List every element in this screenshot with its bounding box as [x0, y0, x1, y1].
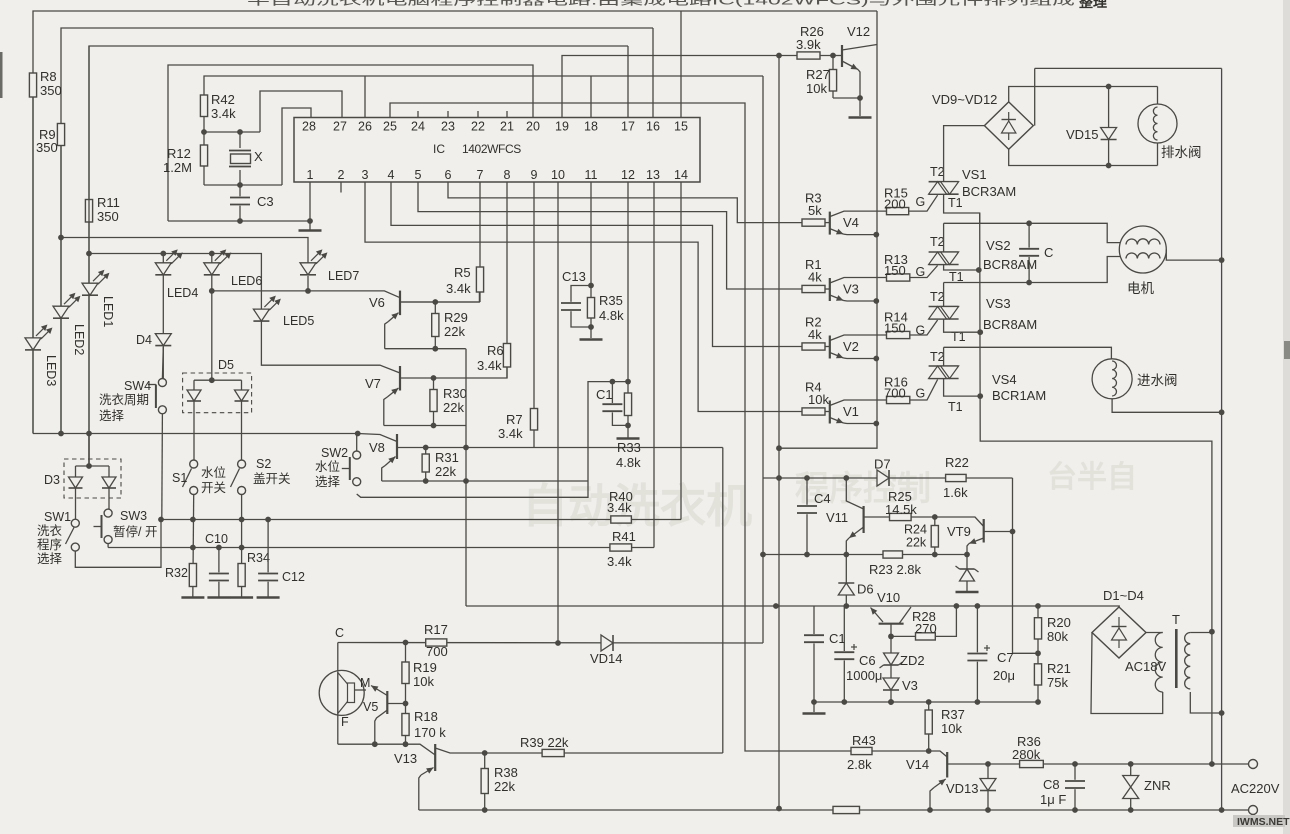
resistor R41 3.4k	[610, 544, 632, 551]
transistor V3	[825, 288, 830, 290]
wire bridge bottom to valve bottom row	[1009, 149, 1158, 165]
transistor V8	[396, 434, 398, 459]
svg-text:V14: V14	[906, 757, 929, 772]
svg-text:2.8k: 2.8k	[847, 757, 872, 772]
node capacitor C top	[1026, 220, 1032, 226]
svg-text:T1: T1	[948, 196, 963, 210]
svg-text:22k: 22k	[494, 779, 515, 794]
resistor R5 3.4k	[476, 267, 483, 292]
resistor R13 150	[887, 274, 910, 281]
svg-text:7: 7	[477, 168, 484, 182]
wire R38 column	[484, 753, 486, 810]
svg-text:SW2: SW2	[321, 446, 348, 460]
svg-text:R33: R33	[617, 440, 641, 455]
svg-text:270: 270	[915, 621, 937, 636]
node C13/R35 top	[588, 283, 594, 289]
transistor V1	[825, 411, 830, 413]
svg-text:R32: R32	[165, 566, 188, 580]
node S1 on row 519	[190, 517, 196, 523]
wire long row y=433.5 to V8 base	[33, 434, 397, 442]
ground R33	[617, 437, 640, 440]
node R31 bottom	[423, 478, 429, 484]
wire IC pin 14 column	[680, 182, 682, 520]
svg-text:BCR1AM: BCR1AM	[992, 388, 1046, 403]
node C7 bottom	[975, 699, 981, 705]
wire LED row y=253.5 and LED5 branch to V7 base	[89, 254, 400, 374]
svg-text:24: 24	[411, 120, 425, 134]
node S2 on row 547	[239, 545, 245, 551]
svg-text:150: 150	[884, 263, 906, 278]
node R30 bottom	[431, 423, 437, 429]
node VD13 top	[985, 761, 991, 767]
wire IC pin 12 column to R33	[627, 182, 629, 439]
node C6 bottom	[841, 699, 847, 705]
ground power block	[803, 712, 826, 715]
wire SW2 top contact riser	[356, 434, 358, 452]
svg-text:R24: R24	[904, 523, 927, 537]
svg-text:10k: 10k	[808, 392, 829, 407]
ground R35	[580, 338, 603, 341]
wire crystal bottom row y=185	[204, 184, 282, 186]
svg-text:G: G	[916, 324, 926, 338]
svg-text:R38: R38	[494, 765, 518, 780]
svg-text:23: 23	[441, 120, 455, 134]
node R35 bottom	[588, 324, 594, 330]
node C4 top	[804, 475, 810, 481]
svg-text:350: 350	[97, 209, 119, 224]
svg-text:3.4k: 3.4k	[446, 281, 471, 296]
node SW4/SW1 junction on row	[158, 517, 164, 523]
svg-text:T1: T1	[948, 400, 963, 414]
node C8 top	[1072, 761, 1078, 767]
svg-text:V8: V8	[369, 440, 385, 455]
svg-text:VD13: VD13	[946, 781, 979, 796]
inlet valve solenoid	[1092, 359, 1132, 399]
capacitor C8	[1064, 780, 1086, 789]
svg-text:台半自: 台半自	[1047, 460, 1137, 494]
node R30 top	[431, 375, 437, 381]
resistor R23 2.8k	[883, 551, 903, 558]
svg-text:D1~D4: D1~D4	[1103, 588, 1144, 603]
svg-text:1402WFCS: 1402WFCS	[462, 142, 521, 156]
svg-text:T2: T2	[930, 290, 945, 304]
svg-text:选择: 选择	[315, 475, 341, 489]
resistor R15 200	[887, 208, 909, 215]
resistor R29 22k	[432, 314, 439, 337]
node right bus on bottom row	[1219, 807, 1225, 813]
wire base wire to VT9	[935, 517, 984, 527]
svg-text:LED2: LED2	[72, 324, 86, 355]
wire C3 column	[239, 185, 241, 221]
wire C7 column	[976, 606, 978, 702]
wire IC pin feed to R1 row	[418, 182, 802, 289]
svg-text:25: 25	[383, 120, 397, 134]
svg-text:R30: R30	[443, 386, 467, 401]
svg-text:V2: V2	[843, 339, 859, 354]
node capacitor C bottom	[1026, 280, 1032, 286]
svg-text:V3: V3	[902, 678, 918, 693]
node C4 bottom on R23 row	[804, 552, 810, 558]
ground R34	[230, 596, 253, 599]
motor	[1119, 226, 1166, 273]
wire R31 column	[425, 448, 427, 482]
svg-text:LED3: LED3	[44, 355, 58, 386]
wire LED1 column x=89	[88, 254, 90, 467]
svg-text:S1: S1	[172, 471, 187, 485]
svg-text:T2: T2	[930, 350, 945, 364]
node motor output on right bus	[1219, 257, 1225, 263]
node bus x=779 on V10 row	[773, 603, 779, 609]
resistor R11 350	[85, 200, 92, 223]
ground V12	[849, 116, 872, 119]
svg-text:18: 18	[584, 120, 598, 134]
wire C6 column	[843, 606, 845, 702]
svg-text:R35: R35	[599, 293, 623, 308]
node R37 top	[926, 699, 932, 705]
wire VS3 T1 hook	[944, 319, 981, 332]
node VS2 T1 on bus	[976, 267, 982, 273]
node VS3 T1 on bus	[977, 329, 983, 335]
svg-text:R43: R43	[852, 733, 876, 748]
wire SW1 bottom loop to row y=519.5	[75, 520, 161, 568]
pin stub 2	[340, 182, 342, 193]
wire R40 right to pin 14 riser	[631, 519, 681, 521]
svg-text:22k: 22k	[906, 536, 927, 550]
node pin1 ground junction	[307, 218, 313, 224]
wire bus x=763 pin18 line down to VD14 row	[762, 76, 764, 643]
node ZNR top	[1128, 761, 1134, 767]
resistor R37 10k	[925, 710, 932, 734]
svg-text:4k: 4k	[808, 327, 822, 342]
speaker / buzzer	[319, 670, 364, 715]
svg-text:350: 350	[40, 83, 62, 98]
wire V7 emitter row y=425.5	[384, 425, 466, 427]
wire drain valve top riser	[1157, 87, 1159, 105]
wire D5 left diode column to S1	[193, 380, 195, 460]
svg-text:170 k: 170 k	[414, 725, 446, 740]
wire R22 corner down to R20/R21 junction	[1013, 478, 1039, 653]
transistor V5	[386, 691, 388, 714]
node V12 emitter junction	[857, 95, 863, 101]
svg-text:C6: C6	[859, 653, 876, 668]
switch S2	[238, 460, 246, 468]
diode D5 left	[187, 390, 201, 401]
svg-text:280k: 280k	[1012, 747, 1041, 762]
wire IC pin 25 line down right bus x=745 to R43 row	[390, 103, 929, 751]
wire primary top to x=1212 bus	[1190, 632, 1212, 634]
node VT9 emitter junction	[964, 552, 970, 558]
triac VS1 BCR3AM	[929, 181, 959, 183]
wire bridge top to valve row y=86.5	[1009, 87, 1158, 102]
wire drain valve bottom riser	[1157, 143, 1159, 166]
wire motor output to right bus	[1166, 250, 1221, 261]
transistor V7	[399, 366, 401, 391]
LED LED5	[253, 309, 269, 321]
resistor R1 4k	[802, 285, 825, 292]
resistor R24 22k	[931, 526, 938, 548]
capacitor C4	[796, 505, 818, 514]
node VT9 collector on riser	[1010, 529, 1016, 535]
terminal AC220V bottom	[1249, 806, 1258, 815]
node C8 bottom on row	[1072, 807, 1078, 813]
wire bus x=466 down to V10 row	[465, 349, 467, 606]
node R29 bottom	[432, 346, 438, 352]
svg-text:20μ: 20μ	[993, 668, 1015, 683]
svg-text:整理: 整理	[1078, 0, 1107, 10]
svg-text:半自动洗衣机电脑程序控制器电路.由集成电路IC(1402WF: 半自动洗衣机电脑程序控制器电路.由集成电路IC(1402WFCS)与外围元件排列…	[247, 0, 1075, 8]
svg-text:1: 1	[307, 168, 314, 182]
ground zener VT9	[956, 591, 979, 594]
wire IC pin 9 column to R7	[533, 182, 535, 448]
wire R25 to R24 top	[911, 516, 935, 518]
wire IC pin 20 line to ground row via x=168	[168, 65, 533, 221]
svg-text:12: 12	[621, 168, 635, 182]
svg-text:2: 2	[338, 168, 345, 182]
wire VD15 column	[1108, 87, 1110, 166]
svg-text:选择: 选择	[37, 552, 63, 566]
wire SW3 bottom to row	[107, 544, 109, 548]
svg-text:28: 28	[302, 120, 316, 134]
wire IC pin 27 line to crystal top	[260, 91, 342, 132]
node V11 collector top	[843, 475, 849, 481]
node R29 top	[432, 299, 438, 305]
svg-text:V10: V10	[877, 590, 900, 605]
node crystal bottom junction	[237, 182, 243, 188]
svg-text:700: 700	[884, 386, 906, 401]
node R11 bottom / LED row	[86, 251, 92, 257]
wire D4 bottom to SW4	[161, 347, 164, 379]
svg-text:G: G	[916, 265, 926, 279]
svg-text:V12: V12	[847, 24, 870, 39]
pin stub 21	[506, 111, 508, 118]
resistor R4 10k	[802, 408, 825, 415]
svg-text:SW4: SW4	[124, 379, 151, 393]
resistor R32	[189, 564, 196, 587]
resistor R3 5k	[802, 219, 825, 226]
wire IC pin 10 column	[557, 182, 559, 643]
wire T1 bus x=980 down and over to x=1212 bus	[980, 213, 1212, 764]
pin stub 24	[417, 111, 419, 118]
svg-text:C8: C8	[1043, 777, 1060, 792]
resistor R36 280k	[1020, 760, 1044, 767]
svg-text:R17: R17	[424, 622, 448, 637]
wire R19/R18 column	[405, 643, 407, 745]
switch SW1	[71, 519, 79, 527]
wire riser to bridge right corner	[1034, 68, 1036, 125]
svg-text:R11: R11	[97, 195, 120, 210]
svg-text:V7: V7	[365, 376, 381, 391]
svg-text:自动洗衣机: 自动洗衣机	[522, 480, 752, 532]
switch SW3 pushbutton	[104, 509, 112, 517]
svg-text:R20: R20	[1047, 615, 1071, 630]
svg-text:LED1: LED1	[101, 296, 115, 327]
svg-text:AC220V: AC220V	[1231, 781, 1280, 796]
svg-text:ZNR: ZNR	[1144, 778, 1171, 793]
node R18 bottom / V13 base	[403, 741, 409, 747]
wire IC pin 13 column	[653, 182, 655, 548]
wire VS1-T1 row to motor upper terminal	[944, 223, 1121, 242]
node bus x=466 on V8 collector row	[463, 445, 469, 451]
LED LED1	[82, 283, 98, 295]
resistor R27 10k	[832, 56, 834, 99]
svg-text:C1: C1	[596, 387, 613, 402]
node C12 top	[265, 517, 271, 523]
node V5 collector on row	[372, 741, 378, 747]
svg-text:22k: 22k	[444, 324, 465, 339]
capacitor C7 electrolytic	[966, 652, 988, 661]
transistor V10	[879, 623, 904, 625]
node R20/R21 junction	[1035, 650, 1041, 656]
wire bridge right corner to secondary top	[1146, 632, 1163, 634]
wire SW4 bottom column to row y=519.5	[161, 414, 164, 520]
svg-text:5: 5	[415, 168, 422, 182]
wire right bus x=1222 down to bottom row	[1221, 68, 1223, 810]
node LED4 top	[160, 251, 166, 257]
wire IC pin 7 column to R5	[479, 182, 481, 302]
wire D7/R22 row y=478	[763, 477, 1013, 479]
resistor R7 3.4k	[530, 409, 537, 431]
wire R28 to supply row riser	[935, 606, 956, 636]
svg-text:R21: R21	[1047, 661, 1071, 676]
node ZNR bottom on row	[1128, 807, 1134, 813]
svg-text:3: 3	[362, 168, 369, 182]
wire VS3 T2 riser	[943, 283, 945, 307]
LED LED6	[204, 263, 220, 275]
wire IC pin 26 riser	[364, 76, 366, 118]
node R31 top	[423, 445, 429, 451]
svg-text:V6: V6	[369, 295, 385, 310]
svg-text:VS1: VS1	[962, 167, 987, 182]
svg-text:5k: 5k	[808, 203, 822, 218]
switch SW4 pushbutton	[158, 379, 166, 387]
wire R20/R21 column	[1037, 606, 1039, 702]
wire D5 right diode column to S2	[241, 380, 243, 460]
svg-text:3.4k: 3.4k	[607, 554, 632, 569]
svg-text:C3: C3	[257, 194, 274, 209]
resistor unlabeled bottom	[833, 806, 860, 813]
wire IC pin 8 column to R6	[506, 182, 508, 378]
svg-text:LED7: LED7	[328, 269, 359, 283]
svg-text:14.5k: 14.5k	[885, 502, 917, 517]
wire LED1 column to D3	[88, 434, 90, 467]
svg-text:11: 11	[585, 168, 598, 182]
svg-text:10k: 10k	[941, 721, 962, 736]
wire ZNR column	[1130, 764, 1132, 810]
gate wire R13 to triac	[910, 266, 938, 278]
svg-text:1.6k: 1.6k	[943, 485, 968, 500]
wire IC pin 18 riser	[590, 76, 592, 118]
diode V3	[883, 678, 899, 690]
wire crystal top row y=132	[204, 131, 260, 133]
wire D6 column	[845, 555, 847, 607]
svg-text:盖开关: 盖开关	[253, 472, 291, 486]
transistor V11	[862, 506, 864, 533]
svg-text:3.4k: 3.4k	[498, 426, 523, 441]
resistor R21 75k	[1034, 664, 1041, 685]
capacitor C3	[229, 196, 251, 205]
svg-text:22: 22	[471, 120, 485, 134]
wire V8 emitter row y=481	[382, 480, 588, 482]
wire IC pin feed to R3 row	[448, 182, 802, 223]
svg-text:9: 9	[531, 168, 538, 182]
IC U1 1402WFCS body	[294, 118, 700, 183]
wire y=237.5 line to LED7	[61, 238, 308, 263]
svg-text:进水阀: 进水阀	[1137, 373, 1178, 388]
wire bus x=722 V8 collector to R39 row	[722, 448, 724, 754]
svg-text:R31: R31	[435, 450, 459, 465]
node primary bottom on right bus	[1219, 710, 1225, 716]
svg-text:R6: R6	[487, 343, 504, 358]
wire nested line y=28 left column x=61	[61, 28, 653, 434]
node ZD2/V3 bottom row	[888, 699, 894, 705]
node R37 bottom / V14 base	[926, 748, 932, 754]
diode D7	[877, 470, 889, 486]
svg-text:1.2M: 1.2M	[163, 160, 192, 175]
svg-text:10k: 10k	[806, 81, 827, 96]
wire V8 collector row y=447.5 to bus x=722	[397, 447, 723, 449]
node transformer primary top on x=1212 bus	[1209, 629, 1215, 635]
wire V11 base to R25	[864, 516, 890, 518]
svg-text:G: G	[916, 195, 926, 209]
triac VS4 BCR1AM	[929, 365, 959, 367]
svg-text:R29: R29	[444, 310, 468, 325]
bridge rectifier VD9~VD12	[984, 102, 1033, 149]
node LED6 top	[209, 251, 215, 257]
node R26 line / bus x=779 junction	[776, 53, 782, 59]
node bus x=779 / y=448 junction	[776, 445, 782, 451]
wire IC pin 19 line y=55.5 to R26 and V12 base	[562, 56, 833, 118]
svg-text:BCR8AM: BCR8AM	[983, 317, 1037, 332]
wire R41 right to pin 13 riser	[632, 547, 654, 549]
resistor R35 4.8k	[587, 298, 594, 319]
resistor R38 22k	[481, 769, 488, 794]
ground pin 1	[299, 229, 322, 232]
drain valve solenoid	[1138, 104, 1177, 143]
svg-text:BCR3AM: BCR3AM	[962, 184, 1016, 199]
scan edge artifact right band	[1283, 0, 1290, 834]
svg-text:26: 26	[358, 120, 372, 134]
node R38 top	[482, 750, 488, 756]
svg-text:R34: R34	[247, 551, 270, 565]
resistor R39 22k	[542, 749, 564, 756]
svg-text:17: 17	[621, 120, 635, 134]
svg-text:22k: 22k	[435, 464, 456, 479]
resistor R28 270	[916, 633, 936, 640]
resistor R31 22k	[422, 454, 429, 472]
svg-text:10: 10	[551, 168, 565, 182]
node VD15 top	[1106, 84, 1112, 90]
dual diode D5 dashed box	[183, 373, 252, 413]
svg-text:1μ F: 1μ F	[1040, 792, 1066, 807]
resistor R19 10k	[402, 662, 409, 684]
svg-text:VT9: VT9	[947, 524, 971, 539]
svg-text:排水阀: 排水阀	[1161, 145, 1202, 160]
transistor V13	[434, 744, 436, 771]
triac VS3 BCR8AM	[929, 306, 959, 308]
svg-text:16: 16	[646, 120, 660, 134]
svg-text:4: 4	[388, 168, 395, 182]
wire primary bottom to right bus	[1190, 692, 1221, 713]
svg-text:R27: R27	[806, 67, 830, 82]
node R24 top	[932, 514, 938, 520]
wire IC pin 1 to ground	[309, 182, 311, 230]
pin stub 22	[477, 111, 479, 118]
diode D5 right	[235, 390, 249, 401]
svg-text:R18: R18	[414, 709, 438, 724]
node x=1212 bus to AC row	[1209, 761, 1215, 767]
transformer T core	[1175, 629, 1178, 688]
wire R11 column down to LED row	[88, 46, 90, 254]
